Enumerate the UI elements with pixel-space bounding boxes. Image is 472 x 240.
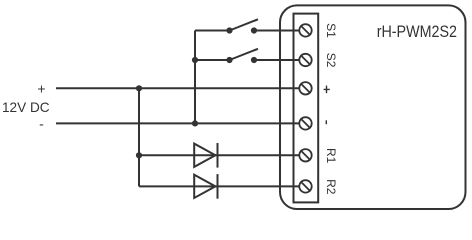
junction node R1 tap [136, 152, 142, 158]
svg-text:S2: S2 [324, 53, 338, 68]
junction node +12V / diode bus [136, 85, 142, 91]
junction node -12V / switch bus [192, 120, 198, 126]
svg-text:R1: R1 [324, 148, 338, 164]
switch SW2 lever [230, 49, 259, 60]
switch SW1 contact dot [251, 27, 257, 33]
switch SW2 pivot dot [226, 57, 232, 63]
terminal screw - [299, 117, 311, 129]
terminal block TB1 [294, 14, 319, 203]
svg-text:12V DC: 12V DC [2, 99, 50, 115]
wire S1 left (bus to switch pivot) [195, 30, 230, 32]
junction node S2 tap [192, 57, 198, 63]
terminal screw + [299, 82, 311, 94]
pin label - [325, 120, 327, 124]
switch SW1 lever [230, 19, 259, 30]
terminal screw S2 [299, 54, 311, 66]
wire R2 (corner to terminal R2 through D2) [139, 185, 300, 187]
wire -12V feed [56, 122, 300, 124]
diode D1 [194, 143, 217, 168]
svg-text:-: - [39, 115, 44, 131]
wire vertical bus switches to -12V [194, 31, 196, 124]
wire +12V feed [56, 87, 300, 89]
switch SW2 contact dot [251, 57, 257, 63]
svg-text:S1: S1 [324, 23, 338, 38]
terminal screw R1 [299, 149, 311, 161]
wire vertical bus +12V to diodes [138, 88, 140, 186]
diode D2 [194, 174, 217, 199]
terminal screw R2 [299, 180, 311, 192]
wire S2 left (bus to switch pivot) [195, 59, 230, 61]
svg-text:R2: R2 [324, 179, 338, 195]
svg-text:+: + [37, 80, 45, 96]
module U1 rH-PWM2S2 outline [280, 5, 466, 209]
terminal screw S1 [299, 24, 311, 36]
wire R1 (node A to terminal R1 through D1) [139, 154, 300, 156]
switch SW1 pivot dot [226, 27, 232, 33]
svg-text:rH-PWM2S2: rH-PWM2S2 [377, 22, 457, 41]
pin label + [324, 86, 330, 94]
wire S1 right (switch contact to terminal S1) [254, 30, 300, 32]
wire S2 right (switch contact to terminal S2) [254, 59, 300, 61]
